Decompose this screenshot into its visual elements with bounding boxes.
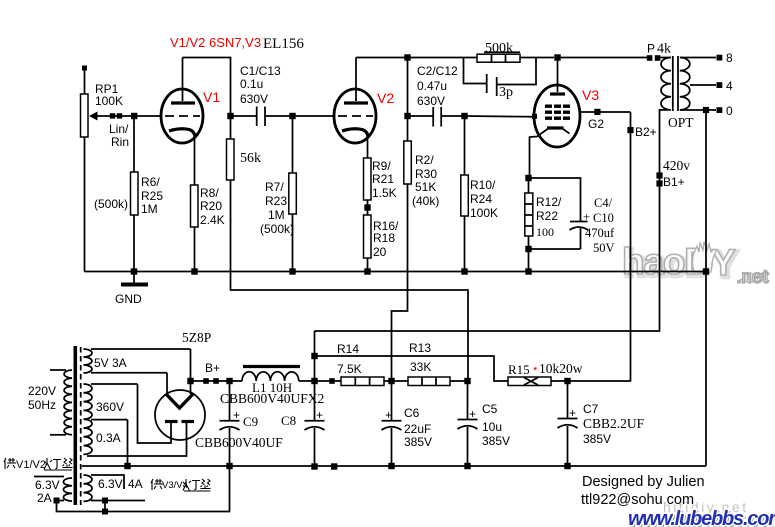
V3 grid mesh — [545, 105, 570, 120]
svg-text:100K: 100K — [470, 206, 498, 220]
node junction C8/PSU rail — [311, 463, 317, 469]
capacitor C6 22uF 385V — [382, 384, 433, 466]
PSU ground rail — [82, 465, 706, 467]
svg-text:630V: 630V — [240, 92, 268, 106]
wire OPT primary bottom 420v line — [315, 110, 671, 331]
wire junction to R6 — [133, 116, 135, 172]
svg-text:+: + — [316, 408, 323, 422]
node junction 0-tap / ground drop — [703, 107, 709, 113]
wire OPT secondary tap 4 — [690, 79, 733, 93]
svg-text:10u: 10u — [482, 420, 502, 434]
node input terminal — [82, 66, 87, 71]
tube V1 envelope — [161, 89, 203, 143]
svg-text:R18: R18 — [373, 231, 395, 245]
wire top run to OPT — [558, 57, 648, 59]
svg-text:385V: 385V — [482, 434, 510, 448]
svg-text:B2+: B2+ — [635, 125, 657, 139]
svg-text:OPT: OPT — [668, 115, 694, 130]
svg-text:5Z8P: 5Z8P — [182, 330, 211, 345]
svg-text:385V: 385V — [404, 435, 432, 449]
node B2+ — [627, 125, 656, 139]
5Z8P plates — [165, 420, 194, 423]
svg-text:360V: 360V — [96, 400, 124, 414]
svg-text:(40k): (40k) — [412, 194, 439, 208]
wire cathode node to C4 — [529, 178, 581, 221]
svg-text:420v: 420v — [663, 158, 690, 173]
node junction centre tap / PSU rail — [124, 463, 130, 469]
svg-text:100K: 100K — [95, 94, 123, 108]
node junction C2/R10 — [461, 113, 467, 119]
wire B2+ vertical — [630, 112, 632, 382]
node junction V1 plate / C1 / 56k — [227, 113, 233, 119]
node junction grid/R6 — [131, 113, 137, 119]
wire R8 to rail — [194, 227, 196, 272]
wire V2 cathode to R9 — [367, 136, 369, 158]
svg-text:CBB2.2UF: CBB2.2UF — [583, 416, 645, 431]
svg-text:C6: C6 — [404, 406, 420, 420]
RP1 wiper arrow — [89, 112, 98, 121]
wire 5V bottom lead to filament — [166, 373, 168, 394]
resistor R6/R25 1M — [94, 172, 163, 216]
svg-text:100: 100 — [536, 225, 554, 239]
svg-text:B+: B+ — [205, 361, 220, 375]
V3 plate — [550, 92, 565, 95]
wire input to pot — [84, 70, 86, 94]
capacitor C9 — [220, 381, 259, 466]
haoDIY watermark — [622, 241, 770, 286]
node connector dot left of R14 — [329, 378, 335, 384]
winding 0.3A HT lower half — [84, 419, 128, 454]
node junction V3 cathode / R12 / C4 — [525, 175, 531, 181]
svg-text:C4/: C4/ — [594, 196, 613, 210]
svg-text:CBB600V40UF: CBB600V40UF — [195, 435, 283, 450]
svg-text:20: 20 — [373, 245, 387, 259]
svg-text:+: + — [233, 408, 240, 422]
svg-text:4A: 4A — [128, 477, 143, 491]
svg-text:V1: V1 — [203, 89, 220, 105]
tube V3 envelope — [534, 85, 580, 147]
wire 56k down to B+ feed line — [231, 180, 469, 382]
svg-text:7.5K: 7.5K — [337, 362, 362, 376]
capacitor C7 CBB2.2UF 385V — [558, 384, 645, 466]
node junction R13/C5/56k — [464, 378, 470, 384]
node junction R10/rail — [461, 268, 467, 274]
wire V1 plate lead up — [182, 58, 184, 102]
node junction C9/PSU rail — [226, 463, 232, 469]
svg-text:R13: R13 — [409, 341, 431, 355]
svg-text:R30: R30 — [415, 167, 437, 181]
node P connector dots — [647, 42, 671, 61]
svg-text:R23: R23 — [265, 194, 287, 208]
svg-text:+: + — [469, 407, 476, 421]
svg-text:V1/V2 6SN7,V3: V1/V2 6SN7,V3 — [170, 35, 261, 50]
label 供V1/V2灯丝 — [4, 458, 73, 471]
resistor R14 7.5K — [337, 342, 384, 386]
svg-text:56k: 56k — [240, 151, 261, 166]
svg-text:www.lubebbs.com: www.lubebbs.com — [628, 508, 775, 527]
ground — [115, 272, 148, 307]
svg-text:R24: R24 — [470, 192, 492, 206]
svg-text:C5: C5 — [482, 402, 498, 416]
svg-text:(500k): (500k) — [94, 197, 128, 211]
svg-text:3p: 3p — [499, 85, 513, 100]
wire V3 cathode down — [529, 137, 531, 179]
node junction R15/C7/B2+ — [564, 378, 570, 384]
wire 420v feed to R15 — [315, 356, 509, 381]
wire OPT 0 tap to ground rails — [705, 110, 707, 466]
wire OPT secondary tap 8 — [680, 51, 733, 65]
wire R7 to rail — [292, 214, 294, 272]
wire pot bottom to ground rail — [84, 137, 86, 272]
wire HT centre tap to ground — [127, 420, 129, 466]
svg-text:B1+: B1+ — [663, 175, 685, 189]
svg-text:51K: 51K — [415, 180, 436, 194]
svg-text:R25: R25 — [141, 189, 163, 203]
svg-text:220V: 220V — [28, 384, 56, 398]
svg-text:1M: 1M — [141, 202, 158, 216]
node junction R7/rail — [289, 268, 295, 274]
wire OPT secondary tap 0 — [680, 104, 733, 118]
Designed by Julien signature — [581, 474, 705, 508]
wire V1 plate top run — [183, 58, 231, 117]
svg-text:+: + — [385, 408, 392, 422]
svg-text:+: + — [583, 210, 590, 224]
transformer T1 power transformer core — [74, 346, 81, 505]
svg-text:0.47u: 0.47u — [417, 79, 447, 93]
rectifier tube 5Z8P — [155, 330, 211, 440]
svg-text:C8: C8 — [281, 413, 296, 428]
svg-text:R22: R22 — [536, 209, 558, 223]
svg-text:C9: C9 — [243, 414, 258, 429]
tube V2 envelope — [334, 89, 376, 143]
capacitor C8 — [281, 384, 325, 466]
svg-text:33K: 33K — [410, 360, 431, 374]
resistor R15 10k 20w — [508, 361, 631, 386]
V1 cathode — [169, 129, 195, 137]
svg-text:R15: R15 — [508, 362, 530, 377]
node junction C6/PSU rail — [388, 463, 394, 469]
svg-text:EL156: EL156 — [263, 36, 304, 52]
node B+ connector dots — [203, 361, 220, 384]
svg-text:6.3V: 6.3V — [98, 477, 123, 491]
node junction R6/rail — [131, 268, 137, 274]
svg-text:8: 8 — [726, 51, 733, 65]
svg-text:*: * — [533, 365, 538, 377]
node junction C1/R7/V2 grid — [289, 113, 295, 119]
wire R10 to rail — [464, 216, 466, 272]
resistor R13 33K — [408, 341, 468, 386]
svg-text:+: + — [569, 406, 576, 420]
svg-text:C7: C7 — [583, 402, 599, 416]
svg-text:50Hz: 50Hz — [28, 398, 56, 412]
svg-text:0: 0 — [726, 104, 733, 118]
resistor R16/R18 20 — [364, 215, 400, 259]
svg-text:V3: V3 — [582, 87, 599, 103]
svg-text:0.1u: 0.1u — [240, 77, 263, 91]
resistor R8/R20 2.4K — [191, 185, 225, 227]
resistor R7/R23 1M — [260, 116, 296, 236]
node junction R9/R16 — [364, 200, 370, 215]
V1 plate — [171, 101, 195, 104]
svg-text:Rin: Rin — [111, 135, 129, 149]
node junction R16/rail — [364, 268, 370, 274]
svg-text:V1/V2: V1/V2 — [16, 459, 46, 471]
capacitor C5 10u 385V — [458, 384, 511, 466]
wire left plate to 360V top — [138, 384, 172, 443]
node B1+ — [656, 158, 690, 189]
capacitor C1/C13 0.1u 630V — [231, 64, 293, 126]
wire V3 plate lead — [557, 58, 559, 93]
title text — [170, 35, 304, 52]
svg-text:22uF: 22uF — [404, 422, 431, 436]
svg-text:GND: GND — [115, 292, 142, 306]
svg-text:10k20w: 10k20w — [539, 361, 583, 376]
wire C2 node to V3 grid — [465, 115, 536, 118]
node junction V3 plate / OPT — [554, 54, 560, 60]
svg-text:1M: 1M — [268, 208, 285, 222]
label 6.3V 4A 供V3/V4灯丝 — [151, 479, 211, 491]
svg-text:Y: Y — [711, 242, 736, 283]
V1 grid dashes — [165, 115, 200, 117]
wire R12 bottom / C4 bottom — [525, 236, 580, 272]
svg-text:630V: 630V — [417, 94, 445, 108]
V2 cathode — [342, 129, 368, 137]
resistor R9/R21 1.5K — [364, 158, 397, 200]
svg-text:385V: 385V — [583, 432, 611, 446]
wire junction to V2 grid — [293, 115, 336, 117]
svg-text:4k: 4k — [657, 42, 671, 57]
wire R16 to rail — [367, 258, 369, 272]
V2 grid dashes — [338, 115, 373, 117]
svg-text:C1/C13: C1/C13 — [240, 64, 281, 78]
svg-text:Lin/: Lin/ — [109, 122, 129, 136]
wire V2 plate top run — [356, 58, 408, 117]
svg-text:4: 4 — [726, 79, 733, 93]
wire right plate to 0.3A bottom — [87, 423, 187, 456]
winding 220V primary — [28, 370, 72, 435]
svg-text:0.3A: 0.3A — [96, 431, 121, 445]
svg-text:(500k): (500k) — [260, 222, 294, 236]
node junction C5/PSU rail — [464, 463, 470, 469]
svg-text:P: P — [647, 42, 655, 56]
node extra dot on PSU rail — [331, 463, 337, 469]
svg-text:470uf: 470uf — [585, 226, 615, 240]
svg-text:R2/: R2/ — [415, 153, 434, 167]
svg-text:G2: G2 — [588, 117, 604, 131]
node junction B+ — [187, 378, 193, 384]
resistor R10/R24 100K (V3 grid leak) — [461, 116, 498, 220]
resistor R12/R22 100 — [525, 178, 562, 239]
svg-text:R10/: R10/ — [470, 178, 496, 192]
V3 cathode — [530, 128, 570, 137]
node junction L1/C8/R14/420v — [311, 331, 317, 384]
svg-text:R8/: R8/ — [200, 186, 219, 200]
svg-text:R14: R14 — [337, 342, 359, 356]
winding 5V 3A (rectifier heater) — [84, 349, 191, 373]
svg-text:1.5K: 1.5K — [372, 186, 397, 200]
resistor 500k feedback — [410, 41, 554, 62]
svg-text:R6/: R6/ — [141, 175, 160, 189]
svg-text:Designed by Julien: Designed by Julien — [582, 474, 705, 490]
node grid entry dot — [532, 114, 537, 119]
svg-text:5V 3A: 5V 3A — [94, 356, 127, 370]
capacitor C2/C12 0.47u 630V — [408, 64, 465, 127]
svg-text:R20: R20 — [200, 199, 222, 213]
svg-text:.net: .net — [736, 267, 768, 288]
node junction R14/R13/C6/R2 — [384, 378, 408, 384]
5Z8P filament — [166, 394, 193, 408]
svg-text:2.4K: 2.4K — [200, 213, 225, 227]
resistor R2/R30 51K (V2 plate load) — [404, 116, 440, 208]
wire wiper to V1 grid — [97, 115, 162, 117]
node Lin/Rin connector dots — [109, 113, 129, 149]
svg-text:CBB600V40UFX2: CBB600V40UFX2 — [220, 391, 324, 406]
node junction rail / 0-drop — [703, 268, 709, 274]
node junction C9 top — [226, 378, 232, 384]
svg-text:6.3V: 6.3V — [35, 478, 60, 492]
capacitor 3p — [464, 58, 537, 101]
svg-text:C2/C12: C2/C12 — [417, 64, 458, 78]
wire 5V top lead to B+ — [190, 349, 192, 394]
svg-text:R21: R21 — [372, 172, 394, 186]
node junction R8/rail — [191, 268, 197, 274]
node junction V2 plate / 500k / C2 — [404, 54, 410, 60]
svg-text:R12/: R12/ — [536, 195, 562, 209]
svg-text:R9/: R9/ — [372, 159, 391, 173]
wire B+ line — [191, 380, 243, 382]
node junction R12/rail — [525, 268, 531, 274]
svg-text:2A: 2A — [37, 491, 52, 505]
svg-text:V2: V2 — [377, 90, 394, 106]
wire R2 down to R14/R13 node — [392, 184, 408, 382]
node junction C7/PSU rail — [564, 463, 570, 469]
inductor L1 10H — [242, 367, 341, 396]
winding 6.3V 2A (V1/V2 heaters) — [34, 477, 72, 506]
wire V2 plate lead up — [355, 58, 357, 102]
www.lubebbs.com blue watermark — [628, 508, 775, 527]
wire heater return line — [54, 466, 230, 515]
capacitor C4/C10 470uf 50V — [570, 196, 616, 255]
winding 360V HT — [84, 384, 138, 419]
svg-text:50V: 50V — [593, 241, 615, 255]
svg-text:R7/: R7/ — [265, 180, 284, 194]
transformer OPT — [661, 56, 695, 130]
wire R6 to rail — [133, 215, 135, 272]
wire V3 screen G2 — [579, 109, 631, 131]
winding 6.3V 4A (V3/V4 heaters) — [84, 475, 146, 501]
resistor 56k (V1 plate load) — [227, 116, 262, 180]
V2 plate — [344, 101, 368, 104]
wire V1 cathode to R8 — [194, 136, 196, 185]
svg-text:C10: C10 — [593, 211, 614, 225]
potentiometer RP1 — [81, 82, 124, 137]
svg-text:500k: 500k — [485, 41, 513, 56]
ground rail wire — [85, 271, 707, 273]
